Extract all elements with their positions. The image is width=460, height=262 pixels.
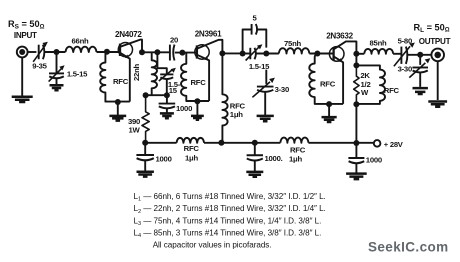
svg-text:L2 — 22nh, 2 Turns #18 Tinned: L2 — 22nh, 2 Turns #18 Tinned Wire, 3/32… [134, 204, 326, 215]
svg-text:85nh: 85nh [370, 39, 387, 48]
svg-text:2N3632: 2N3632 [326, 31, 353, 40]
svg-text:+ 28V: + 28V [384, 140, 404, 149]
svg-text:1μh: 1μh [289, 154, 302, 163]
svg-text:RFC: RFC [190, 78, 206, 87]
svg-text:3-30: 3-30 [275, 85, 289, 94]
svg-text:3-30: 3-30 [398, 65, 412, 74]
svg-text:66nh: 66nh [72, 36, 89, 45]
svg-text:2N4072: 2N4072 [115, 30, 142, 39]
svg-text:OUTPUT: OUTPUT [419, 37, 451, 46]
svg-text:1000: 1000 [156, 154, 172, 163]
svg-text:20: 20 [170, 36, 178, 45]
svg-text:15: 15 [169, 86, 178, 95]
svg-text:1μh: 1μh [185, 153, 198, 162]
svg-text:L3 — 75nh, 4 Turns #14 Tinned: L3 — 75nh, 4 Turns #14 Tinned Wire, 1/4″… [134, 216, 322, 227]
svg-text:RL = 50Ω: RL = 50Ω [414, 22, 450, 34]
svg-text:RFC: RFC [320, 79, 336, 88]
svg-text:1.5-15: 1.5-15 [67, 70, 88, 79]
svg-text:1000: 1000 [176, 104, 192, 113]
svg-text:75nh: 75nh [284, 39, 301, 48]
svg-text:RS = 50Ω: RS = 50Ω [8, 19, 45, 31]
svg-text:2N3961: 2N3961 [195, 30, 222, 39]
svg-text:SeekIC.com: SeekIC.com [368, 240, 449, 255]
svg-text:L4 — 85nh, 3 Turns #14 Tinned: L4 — 85nh, 3 Turns #14 Tinned Wire, 3/8″… [134, 229, 322, 240]
svg-text:5-80: 5-80 [398, 37, 412, 46]
svg-text:W: W [361, 88, 369, 97]
svg-text:RFC: RFC [384, 86, 400, 95]
svg-text:RFC: RFC [113, 77, 129, 86]
svg-text:9-35: 9-35 [32, 61, 47, 70]
svg-text:RFC: RFC [184, 144, 200, 153]
svg-text:1000: 1000 [366, 156, 382, 165]
svg-text:All capacitor values in picofa: All capacitor values in picofarads. [153, 241, 272, 250]
svg-text:22nh: 22nh [132, 63, 141, 80]
svg-text:L1 — 66nh, 6 Turns #18 Tinned: L1 — 66nh, 6 Turns #18 Tinned Wire, 3/32… [134, 192, 326, 203]
svg-text:1000.: 1000. [265, 154, 283, 163]
svg-text:1W: 1W [128, 125, 140, 134]
svg-text:5: 5 [252, 14, 257, 23]
svg-text:1.5-15: 1.5-15 [249, 62, 270, 71]
svg-text:1μh: 1μh [230, 110, 243, 119]
svg-text:INPUT: INPUT [14, 31, 37, 40]
